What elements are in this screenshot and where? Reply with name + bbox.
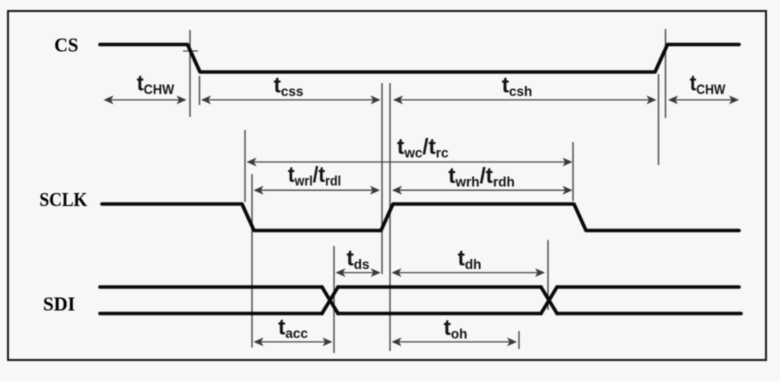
svg-text:SCLK: SCLK	[39, 189, 87, 211]
svg-text:CS: CS	[54, 35, 78, 57]
svg-text:SDI: SDI	[43, 294, 75, 315]
